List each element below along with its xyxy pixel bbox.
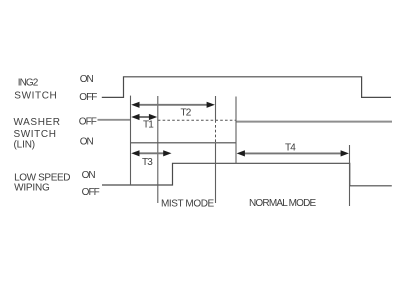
wire T4 dimension arrow <box>237 150 349 156</box>
node reference line at washer release <box>235 97 237 164</box>
wire T2 dimension arrow <box>131 102 215 108</box>
svg-text:OFF: OFF <box>82 187 100 198</box>
svg-text:OFF: OFF <box>79 92 97 103</box>
svg-text:T2: T2 <box>181 108 192 119</box>
signal label ING2 SWITCH <box>14 78 57 102</box>
svg-text:SWITCH: SWITCH <box>14 91 57 102</box>
svg-text:(LIN): (LIN) <box>14 140 35 151</box>
svg-text:T1: T1 <box>143 120 154 131</box>
wire washer OFF dashed reference <box>158 119 236 121</box>
wire washer OFF level left segment <box>98 119 131 121</box>
node reference line at washer press <box>130 96 132 185</box>
svg-text:ON: ON <box>80 136 94 147</box>
svg-text:WIPING: WIPING <box>14 183 50 194</box>
signal label WASHER SWITCH (LIN) <box>14 117 61 151</box>
node reference line at T2 end lower <box>215 143 217 203</box>
signal label LOW SPEED WIPING <box>14 172 70 193</box>
wire T1 dimension arrow <box>131 114 157 120</box>
svg-text:T3: T3 <box>142 157 153 168</box>
svg-text:T4: T4 <box>285 143 296 154</box>
svg-text:OFF: OFF <box>79 116 97 127</box>
svg-text:MIST MODE: MIST MODE <box>161 199 215 210</box>
wire washer OFF level right segment <box>236 121 392 123</box>
svg-text:ON: ON <box>80 74 94 85</box>
node reference line at T2 end upper <box>215 96 217 120</box>
svg-text:ING2: ING2 <box>18 78 39 89</box>
wire low speed wiping waveform <box>102 163 392 186</box>
wire washer ON level <box>131 142 237 144</box>
svg-text:SWITCH: SWITCH <box>14 129 57 140</box>
wire washer dashed release edge <box>215 120 217 143</box>
svg-text:NORMAL MODE: NORMAL MODE <box>249 198 317 209</box>
svg-text:ON: ON <box>82 170 96 181</box>
svg-text:WASHER: WASHER <box>14 117 61 128</box>
wire ING2 waveform <box>102 77 391 98</box>
node reference line at T1 end <box>157 96 159 203</box>
wire T3 dimension arrow <box>131 150 171 156</box>
node reference line at wiping stop <box>349 145 351 206</box>
